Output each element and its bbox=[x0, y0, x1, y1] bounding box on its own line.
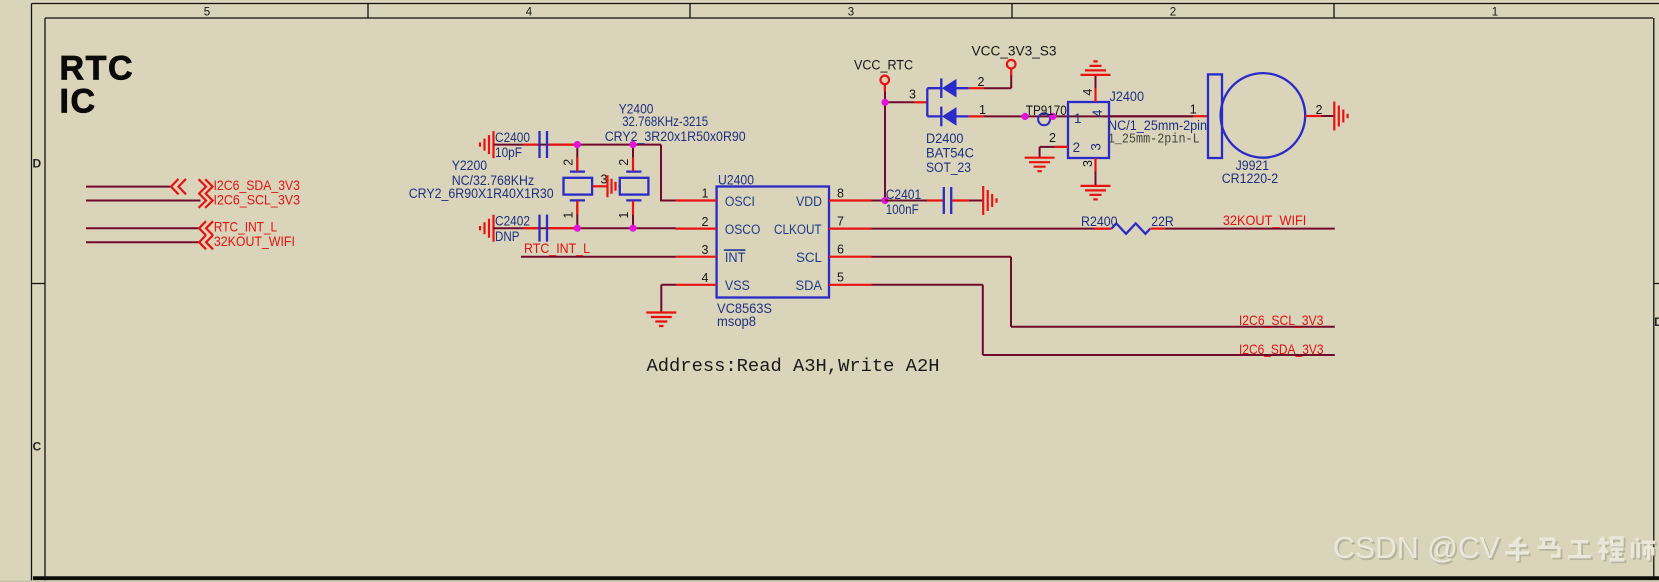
pin 3 bottom bbox=[1095, 158, 1097, 185]
svg-text:32KOUT_WIFI: 32KOUT_WIFI bbox=[214, 234, 295, 249]
svg-text:2: 2 bbox=[1049, 131, 1056, 145]
crystal Y2200 bbox=[409, 145, 620, 229]
svg-text:J2400: J2400 bbox=[1110, 89, 1145, 104]
capacitor C2402 bbox=[495, 214, 577, 244]
wire J2400 pin1 to battery bbox=[1109, 115, 1193, 117]
svg-text:CRY2_6R90X1R40X1R30: CRY2_6R90X1R40X1R30 bbox=[409, 186, 554, 201]
test point TP9170 bbox=[1021, 103, 1066, 126]
pin 1 OSCI bbox=[676, 199, 717, 201]
svg-text:INT: INT bbox=[725, 250, 746, 266]
wire VDD to junction bbox=[872, 200, 886, 202]
svg-text:7: 7 bbox=[837, 215, 844, 229]
wire C2400 to crystal top rail bbox=[494, 144, 662, 146]
junction crystal bottom right bbox=[629, 225, 636, 232]
svg-text:4: 4 bbox=[1081, 89, 1095, 96]
svg-text:2: 2 bbox=[1170, 6, 1176, 18]
junction VDD node bbox=[881, 197, 888, 204]
svg-text:Address:Read A3H,Write A2H: Address:Read A3H,Write A2H bbox=[647, 355, 940, 377]
svg-text:10pF: 10pF bbox=[495, 145, 522, 160]
pin 3 INT bbox=[676, 256, 717, 258]
svg-text:2: 2 bbox=[562, 159, 576, 166]
svg-text:OSCO: OSCO bbox=[725, 222, 761, 238]
svg-text:C2401: C2401 bbox=[886, 187, 922, 202]
wire SDA to I2C6_SDA_3V3 bbox=[872, 285, 1335, 355]
svg-text:3: 3 bbox=[1081, 160, 1095, 167]
svg-text:D: D bbox=[32, 157, 41, 171]
svg-text:1: 1 bbox=[1074, 111, 1081, 126]
diode D2400 bbox=[909, 75, 986, 175]
sheet entry arrow I2C6_SDA_3V3 bbox=[171, 179, 186, 194]
svg-text:OSCI: OSCI bbox=[725, 194, 755, 210]
svg-text:I2C6_SCL_3V3: I2C6_SCL_3V3 bbox=[1239, 313, 1324, 328]
connector J2400 bbox=[1040, 76, 1207, 186]
watermark CSDN bbox=[1333, 530, 1657, 567]
junction crystal bottom left bbox=[574, 225, 581, 232]
svg-text:DNP: DNP bbox=[495, 229, 520, 244]
crystal Y2400 bbox=[605, 101, 746, 228]
svg-text:CSDN @CV: CSDN @CV bbox=[1333, 530, 1500, 565]
svg-text:SCL: SCL bbox=[796, 250, 822, 266]
title RTC IC bbox=[60, 49, 135, 120]
wire C2402 to crystal bottom rail bbox=[494, 227, 677, 229]
svg-text:R2400: R2400 bbox=[1081, 214, 1118, 229]
svg-text:D2400: D2400 bbox=[926, 131, 964, 146]
svg-text:TP9170: TP9170 bbox=[1026, 103, 1067, 118]
net label I2C6_SDA_3V3 bbox=[199, 178, 300, 194]
svg-text:1: 1 bbox=[1190, 103, 1197, 117]
svg-text:2: 2 bbox=[617, 159, 631, 166]
svg-text:NC/1_25mm-2pin: NC/1_25mm-2pin bbox=[1108, 118, 1207, 133]
wire D2400 pin1 to J2400 bbox=[984, 115, 1194, 117]
svg-text:5: 5 bbox=[837, 271, 844, 285]
pin 2 OSCO bbox=[676, 228, 717, 230]
svg-text:32KOUT_WIFI: 32KOUT_WIFI bbox=[1223, 213, 1306, 228]
ruler row letters bbox=[32, 157, 1659, 454]
ground at C2402 bbox=[480, 215, 494, 242]
ground VSS bbox=[646, 313, 676, 327]
ground below J2400 pin 3 bbox=[1081, 186, 1111, 200]
svg-text:I2C6_SDA_3V3: I2C6_SDA_3V3 bbox=[1239, 342, 1324, 357]
wire 32KOUT_WIFI left bbox=[86, 241, 199, 243]
svg-text:3: 3 bbox=[909, 88, 916, 102]
resistor R2400 bbox=[1081, 214, 1174, 234]
pin 6 SCL bbox=[829, 256, 872, 258]
wire I2C6_SDA_3V3 bbox=[86, 186, 170, 188]
svg-text:1_25mm-2pin-L: 1_25mm-2pin-L bbox=[1108, 133, 1200, 148]
wire VCC_RTC vertical bbox=[885, 85, 914, 201]
junction crystal top left bbox=[574, 141, 581, 148]
net label RTC_INT_L left bbox=[199, 220, 277, 236]
svg-text:4: 4 bbox=[526, 6, 533, 18]
svg-text:1: 1 bbox=[979, 103, 986, 117]
pin 2 left bbox=[1040, 147, 1068, 157]
svg-text:SDA: SDA bbox=[796, 278, 823, 294]
battery holder J9921 bbox=[1190, 73, 1323, 186]
svg-text:RTC_INT_L: RTC_INT_L bbox=[524, 241, 590, 256]
wire VSS to ground bbox=[661, 285, 676, 312]
svg-text:1: 1 bbox=[562, 212, 576, 219]
svg-text:CLKOUT: CLKOUT bbox=[774, 222, 822, 238]
svg-text:22R: 22R bbox=[1151, 214, 1174, 229]
wire D2400 pin2 to VCC_3V3_S3 bbox=[984, 75, 1012, 88]
ruler zone numbers bbox=[204, 6, 1498, 18]
svg-text:3: 3 bbox=[848, 6, 854, 18]
wire battery pin2 to ground bbox=[1321, 115, 1334, 117]
svg-text:VCC_3V3_S3: VCC_3V3_S3 bbox=[972, 43, 1057, 58]
pin 4 top bbox=[1095, 76, 1097, 103]
svg-text:C2402: C2402 bbox=[495, 214, 530, 229]
svg-text:2: 2 bbox=[978, 75, 985, 89]
wire RTC_INT_L to pin 3 bbox=[521, 256, 676, 258]
svg-text:VSS: VSS bbox=[725, 278, 750, 294]
svg-text:8: 8 bbox=[837, 187, 844, 201]
ground at J2400 pin 2 bbox=[1025, 158, 1055, 172]
svg-text:I2C6_SDA_3V3: I2C6_SDA_3V3 bbox=[214, 178, 301, 193]
wire RTC_INT_L left bbox=[86, 227, 199, 229]
svg-text:1: 1 bbox=[1492, 6, 1498, 18]
capacitor C2400 bbox=[495, 130, 577, 160]
svg-text:BAT54C: BAT54C bbox=[926, 145, 974, 160]
svg-text:4: 4 bbox=[702, 271, 709, 285]
svg-text:U2400: U2400 bbox=[718, 173, 754, 188]
pin 5 SDA bbox=[829, 284, 872, 286]
svg-text:CRY2_3R20x1R50x0R90: CRY2_3R20x1R50x0R90 bbox=[605, 129, 746, 144]
junction VCC_RTC node bbox=[881, 99, 888, 106]
wire resistor to 32KOUT_WIFI bbox=[1165, 228, 1335, 230]
svg-text:3: 3 bbox=[702, 243, 709, 257]
capacitor C2401 bbox=[885, 187, 983, 217]
svg-text:1: 1 bbox=[702, 187, 709, 201]
svg-text:SOT_23: SOT_23 bbox=[926, 160, 971, 175]
wire OSCI rail corner bbox=[661, 145, 676, 201]
pin 7 CLKOUT bbox=[829, 228, 872, 230]
ground above J2400 pin 4 bbox=[1081, 61, 1111, 75]
svg-text:3: 3 bbox=[1088, 143, 1103, 150]
svg-text:2: 2 bbox=[1073, 140, 1080, 155]
svg-text:2: 2 bbox=[1316, 103, 1323, 117]
ground at battery pin2 bbox=[1334, 102, 1347, 131]
svg-text:msop8: msop8 bbox=[717, 314, 756, 329]
svg-text:1: 1 bbox=[617, 212, 631, 219]
junction crystal top right bbox=[629, 141, 636, 148]
IC U2400 bbox=[676, 173, 872, 330]
svg-text:Y2200: Y2200 bbox=[452, 158, 487, 173]
svg-text:I2C6_SCL_3V3: I2C6_SCL_3V3 bbox=[214, 192, 301, 207]
net label I2C6_SCL_3V3 bbox=[199, 192, 300, 208]
svg-text:5: 5 bbox=[204, 6, 210, 18]
pin 4 VSS bbox=[676, 284, 717, 286]
svg-text:RTC_INT_L: RTC_INT_L bbox=[214, 220, 278, 235]
svg-text:32.768KHz-3215: 32.768KHz-3215 bbox=[622, 114, 708, 129]
svg-text:D: D bbox=[1654, 315, 1659, 329]
ground at C2400 bbox=[480, 131, 494, 158]
wire I2C6_SCL_3V3 bbox=[86, 200, 201, 202]
net label 32KOUT_WIFI left bbox=[199, 234, 295, 249]
power port VCC_3V3_S3 bbox=[972, 43, 1057, 75]
svg-text:2: 2 bbox=[702, 215, 709, 229]
pin 8 VDD bbox=[829, 199, 872, 201]
svg-text:100nF: 100nF bbox=[886, 202, 919, 217]
svg-text:C: C bbox=[32, 440, 41, 454]
svg-text:IC: IC bbox=[60, 82, 97, 120]
wire CLKOUT to resistor bbox=[872, 228, 1112, 230]
svg-text:CR1220-2: CR1220-2 bbox=[1222, 171, 1279, 186]
ground at C2401 bbox=[983, 186, 996, 215]
svg-text:VCC_RTC: VCC_RTC bbox=[854, 58, 913, 73]
svg-text:C2400: C2400 bbox=[495, 130, 530, 145]
power port VCC_RTC bbox=[854, 58, 913, 92]
svg-text:4: 4 bbox=[1090, 109, 1105, 117]
wire SCL to I2C6_SCL_3V3 bbox=[872, 257, 1335, 327]
svg-text:6: 6 bbox=[837, 243, 844, 257]
svg-text:VDD: VDD bbox=[796, 194, 822, 210]
